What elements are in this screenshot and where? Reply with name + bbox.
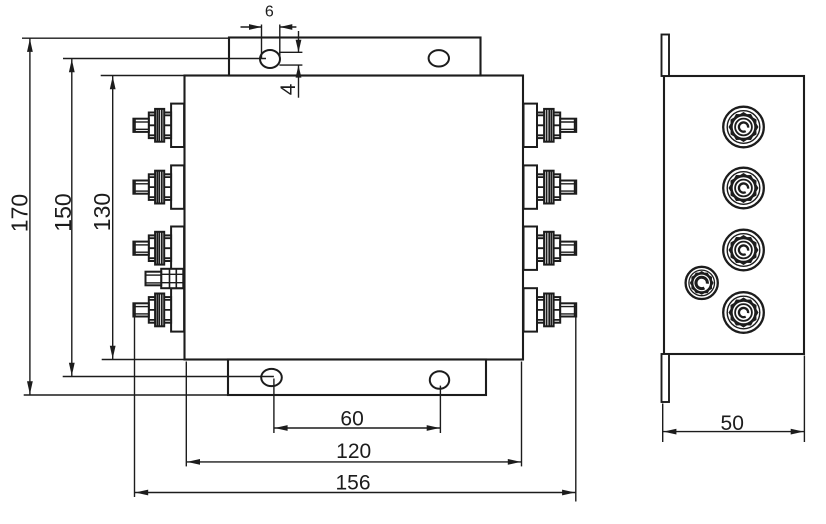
right terminal stud 1 bbox=[524, 104, 577, 147]
dimension 150 extension line bottom bbox=[63, 376, 274, 378]
svg-text:130: 130 bbox=[89, 193, 115, 231]
left terminal stud 3 bbox=[133, 227, 184, 270]
side view connector circle 1 bbox=[723, 107, 764, 148]
side view connector circle 4 bbox=[723, 292, 764, 333]
right terminal stud 2 bbox=[524, 165, 577, 208]
dimension 156 line bbox=[135, 492, 576, 494]
side view bottom flange tab bbox=[662, 354, 670, 402]
dimension 60 line bbox=[274, 427, 441, 429]
front view body rectangle bbox=[185, 76, 524, 360]
dimension 130 line bbox=[112, 76, 114, 360]
dimension 50 line bbox=[663, 431, 805, 433]
side view body rectangle bbox=[664, 76, 804, 354]
dimension 130 extension line bottom bbox=[102, 359, 187, 361]
bottom flange right slot hole bbox=[430, 371, 449, 389]
svg-text:50: 50 bbox=[721, 412, 744, 435]
svg-text:4: 4 bbox=[277, 83, 300, 95]
dimension 170 line bbox=[29, 38, 31, 395]
side view connector circle 3 bbox=[723, 230, 764, 271]
left terminal stud 1 bbox=[133, 104, 184, 147]
left terminal stud 2 bbox=[133, 165, 184, 208]
top flange left slot hole bbox=[260, 50, 280, 68]
dimension 170 extension line top bbox=[22, 37, 229, 39]
svg-text:6: 6 bbox=[265, 4, 274, 21]
dimension 120 line bbox=[186, 461, 521, 463]
left terminal stud 4 bbox=[133, 288, 184, 331]
right terminal stud 4 bbox=[524, 288, 577, 331]
svg-text:120: 120 bbox=[336, 440, 371, 463]
top mounting flange bbox=[229, 38, 481, 76]
top flange right slot hole bbox=[429, 50, 449, 66]
bottom mounting flange bbox=[228, 360, 486, 396]
side view top flange tab bbox=[662, 35, 670, 77]
svg-text:60: 60 bbox=[340, 408, 363, 431]
dimension 150 line bbox=[71, 59, 73, 377]
dimension 170 extension line bottom bbox=[24, 394, 228, 396]
bottom flange left slot hole bbox=[261, 369, 282, 386]
dimension 4 tangent lines bbox=[279, 51, 302, 53]
right terminal stud 3 bbox=[524, 227, 577, 270]
dimension 4 arrows bbox=[298, 31, 300, 52]
dimension 6 extension lines bbox=[261, 25, 263, 60]
left small earth stud bbox=[146, 269, 184, 288]
side view small earth connector circle bbox=[686, 267, 718, 299]
dimension 60 extension lines bbox=[273, 379, 275, 434]
dimension 156 extension lines bbox=[134, 317, 136, 497]
side view connector circle 2 bbox=[723, 168, 764, 209]
dimension 50 extension lines bbox=[662, 404, 664, 443]
dimension 6 line with outside arrows bbox=[241, 26, 262, 28]
svg-text:150: 150 bbox=[50, 193, 76, 231]
dimension 120 extension lines bbox=[185, 362, 187, 467]
dimension 150 extension line top bbox=[63, 58, 266, 60]
svg-text:170: 170 bbox=[7, 194, 33, 232]
svg-text:156: 156 bbox=[335, 472, 370, 495]
dimension 130 extension line top bbox=[101, 75, 185, 77]
